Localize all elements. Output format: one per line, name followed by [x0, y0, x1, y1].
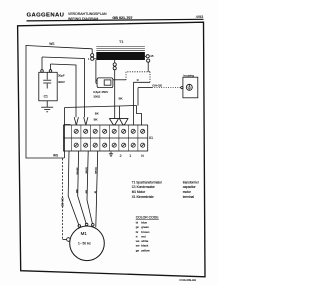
- svg-text:br: br: [136, 230, 139, 234]
- svg-text:sw: sw: [85, 190, 89, 194]
- fork connector t3: [84, 117, 86, 124]
- transformer center tap connector: [114, 60, 116, 63]
- svg-text:X1 Klemmleiste: X1 Klemmleiste: [132, 195, 154, 199]
- wire from right terminal to snubber: [147, 62, 149, 72]
- wire jumper above strip: [65, 106, 137, 108]
- svg-text:1~ 50 Hz: 1~ 50 Hz: [78, 241, 91, 245]
- svg-text:brown: brown: [141, 230, 150, 234]
- connector pair left of transformer: [91, 49, 93, 54]
- svg-text:ws: ws: [136, 239, 140, 243]
- svg-text:T1: T1: [119, 40, 123, 44]
- svg-text:GN-GE: GN-GE: [152, 83, 162, 87]
- header underline: [27, 19, 204, 21]
- wire N from strip up: [133, 82, 135, 125]
- svg-text:red: red: [141, 234, 146, 238]
- svg-text:GN-GE: GN-GE: [61, 198, 65, 207]
- svg-text:bl-ws: bl-ws: [85, 168, 89, 175]
- svg-text:sw-ws: sw-ws: [75, 168, 78, 176]
- svg-text:gn: gn: [136, 225, 140, 229]
- svg-text:30µF: 30µF: [58, 74, 65, 78]
- svg-text:WS: WS: [49, 42, 54, 46]
- wire from transformer left end down to snubber: [95, 60, 97, 83]
- capacitor symbol: [46, 72, 48, 79]
- wire earth GN-GE to motor: [62, 159, 64, 240]
- fork connector t2: [74, 117, 76, 124]
- motor wire 2: [78, 151, 87, 224]
- fork connector B: [120, 119, 129, 125]
- svg-text:terminal: terminal: [183, 195, 195, 199]
- svg-text:BK: BK: [94, 117, 98, 121]
- wire drop to fork B: [119, 106, 121, 119]
- ground mark below strip: [110, 152, 112, 154]
- svg-text:C1 Kondensator: C1 Kondensator: [132, 185, 156, 189]
- svg-text:M1: M1: [81, 231, 88, 236]
- svg-text:100Ω: 100Ω: [93, 95, 101, 99]
- svg-text:black: black: [141, 244, 149, 248]
- motor wire 4: [96, 151, 98, 227]
- transformer winding hatch: [96, 46, 145, 48]
- svg-text:br: br: [94, 191, 98, 194]
- svg-text:ge: ge: [136, 248, 140, 252]
- motor wire 1: [68, 151, 79, 226]
- capacitor terminals: [41, 70, 44, 73]
- svg-text:2: 2: [120, 154, 122, 158]
- svg-text:X1: X1: [149, 136, 153, 140]
- motor entry terminals: [78, 225, 81, 228]
- wire WS loop (mains white wire): [26, 46, 92, 159]
- svg-text:transformer: transformer: [183, 180, 200, 184]
- snubber RC box: [97, 78, 113, 88]
- svg-text:1: 1: [129, 154, 131, 158]
- svg-text:BK: BK: [119, 96, 123, 100]
- svg-text:M1 Motor: M1 Motor: [132, 190, 146, 194]
- terminal screws top row: [74, 129, 145, 133]
- svg-text:br-ws: br-ws: [94, 168, 98, 175]
- ground below C1: [46, 101, 48, 107]
- svg-text:sw: sw: [136, 244, 141, 248]
- svg-text:C1: C1: [44, 95, 48, 99]
- svg-text:motor: motor: [183, 190, 192, 194]
- drawing frame: [18, 22, 205, 277]
- wire left drop to WS: [64, 108, 66, 159]
- svg-text:rt: rt: [136, 234, 138, 238]
- housing box with earth terminal: [183, 77, 198, 98]
- svg-text:GAGGENAU: GAGGENAU: [27, 13, 65, 19]
- svg-text:1: 1: [88, 58, 90, 61]
- svg-text:4/93: 4/93: [196, 15, 203, 19]
- svg-text:0,5µF 250V: 0,5µF 250V: [93, 90, 108, 94]
- terminal strip X1: [64, 125, 148, 151]
- svg-text:COLOR CODE: COLOR CODE: [136, 216, 160, 220]
- svg-text:N: N: [137, 79, 139, 82]
- wire capacitor loop inner: [51, 64, 77, 117]
- svg-text:400V: 400V: [58, 80, 65, 84]
- wire stub into strip left: [64, 124, 70, 126]
- wire earth GN-GE to housing: [137, 88, 139, 106]
- wire capacitor loop outer: [42, 57, 85, 117]
- svg-text:GB 021-707: GB 021-707: [112, 16, 132, 20]
- svg-text:WS: WS: [53, 153, 58, 157]
- motor wire 3: [87, 151, 93, 224]
- svg-text:yellow: yellow: [141, 248, 150, 252]
- svg-text:bl: bl: [136, 220, 139, 224]
- svg-text:BK: BK: [95, 111, 99, 115]
- svg-text:white: white: [141, 239, 148, 243]
- motor M1: [70, 226, 105, 261]
- svg-text:capacitor: capacitor: [183, 185, 197, 189]
- svg-text:blue: blue: [141, 220, 147, 224]
- svg-text:T1 Spartransformator: T1 Spartransformator: [132, 180, 163, 184]
- svg-text:N: N: [141, 154, 144, 158]
- svg-text:VERDRAHTUNGSPLAN: VERDRAHTUNGSPLAN: [68, 12, 107, 16]
- terminal screws bottom row: [74, 143, 145, 147]
- svg-text:ws: ws: [75, 190, 79, 194]
- wire jumper right end to strip: [137, 106, 142, 126]
- svg-text:N 04-009-HH: N 04-009-HH: [180, 278, 196, 282]
- connector pair right of transformer: [145, 55, 146, 57]
- svg-text:45: 45: [150, 54, 154, 58]
- transformer T1 body: [96, 52, 145, 60]
- svg-text:green: green: [141, 225, 149, 229]
- wire BK center tap down to strip: [114, 70, 116, 119]
- fork connector A: [110, 118, 129, 120]
- capacitor C1 box: [39, 72, 57, 101]
